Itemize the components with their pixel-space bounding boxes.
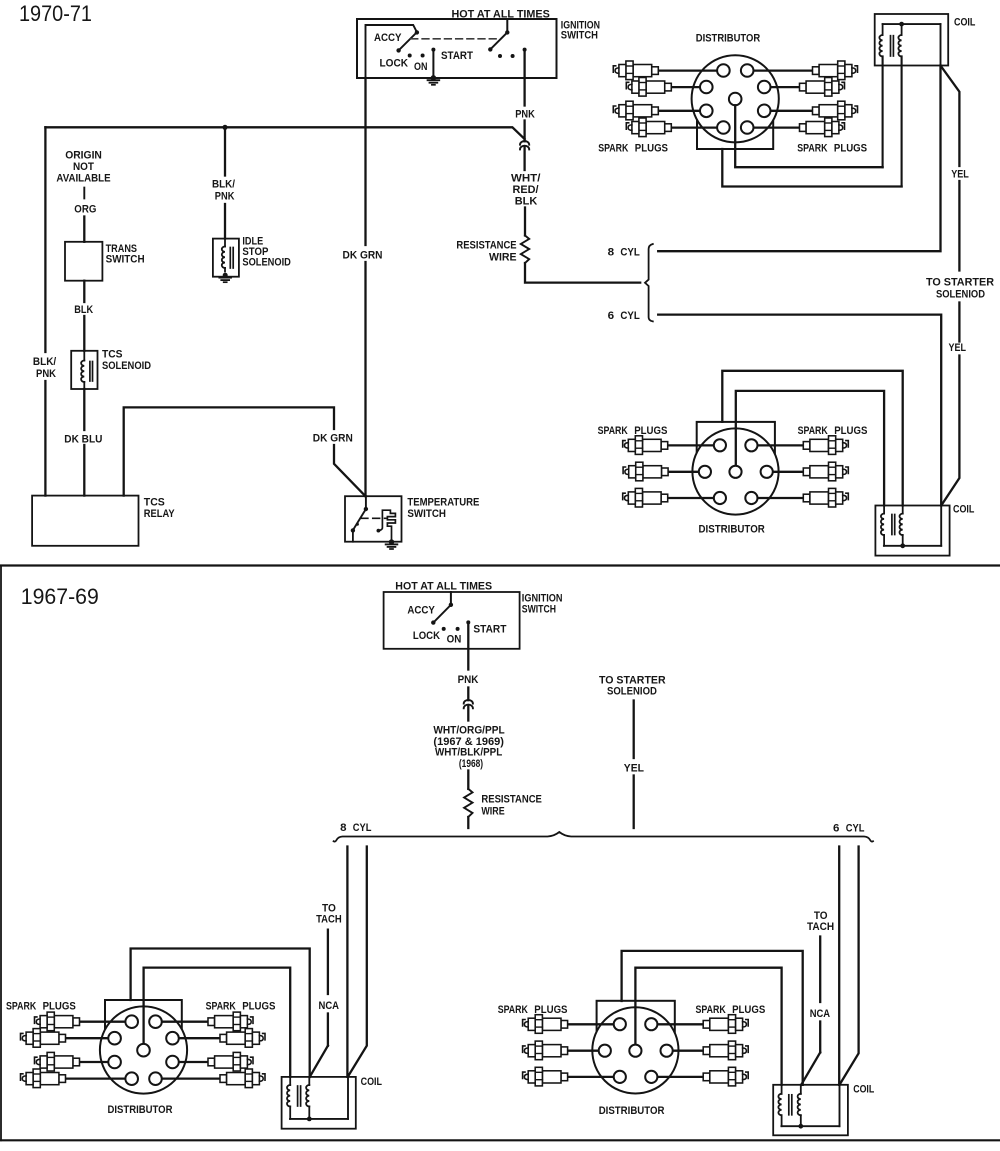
- wire distributor housing to coil (1967-69 6cyl): [622, 951, 803, 1085]
- coil terminal edge (1967-69 8cyl): [347, 1077, 349, 1119]
- wire PNK (1967-69): [467, 622, 469, 669]
- coil terminal edge (1967-69 6cyl): [839, 1085, 841, 1126]
- spark plug (1970-71 6cyl left row2): [623, 462, 668, 481]
- spark plug (1970-71 8cyl left row4): [626, 118, 671, 137]
- spark plug wires right (1967-69 8cyl): [162, 1021, 208, 1023]
- wire DK GRN from ignition switch to temperature switch: [364, 78, 366, 245]
- wire TCS relay to temperature switch: [124, 407, 334, 495]
- svg-text:DK GRN: DK GRN: [343, 250, 383, 262]
- brace 8cyl/6cyl (1970-71): [645, 244, 653, 321]
- svg-text:BLK/: BLK/: [33, 356, 56, 368]
- svg-text:PLUGS: PLUGS: [635, 143, 668, 155]
- contacts (right pair): [498, 54, 502, 58]
- svg-text:PLUGS: PLUGS: [43, 1001, 76, 1013]
- spark plug (1970-71 8cyl right row2): [800, 78, 845, 97]
- spark plug (1970-71 8cyl left row2): [626, 78, 671, 97]
- svg-text:CYL: CYL: [846, 823, 865, 835]
- distributor towers (1967-69 6cyl): [614, 1018, 626, 1030]
- svg-text:PLUGS: PLUGS: [534, 1004, 567, 1016]
- ignition feed switch lever: [506, 19, 508, 32]
- svg-text:BLK/: BLK/: [212, 179, 235, 191]
- svg-text:SWITCH: SWITCH: [522, 604, 556, 616]
- wire 6 CYL to lower coil: [658, 315, 941, 506]
- svg-text:DISTRIBUTOR: DISTRIBUTOR: [599, 1105, 665, 1117]
- spark plug (1967-69 8cyl left row1): [35, 1012, 80, 1031]
- spark plug (1967-69 8cyl left row3): [35, 1052, 80, 1071]
- svg-text:PLUGS: PLUGS: [732, 1004, 765, 1016]
- spark plug (1970-71 8cyl left row1): [613, 61, 658, 80]
- ACCY switch lever: [399, 32, 417, 50]
- svg-text:PLUGS: PLUGS: [634, 425, 667, 437]
- spark plug wires right (1970-71 8cyl): [754, 69, 813, 71]
- spark plug wires left (1970-71 8cyl): [658, 69, 717, 71]
- coil terminal edge (1970-71 6cyl): [940, 506, 942, 546]
- svg-text:PLUGS: PLUGS: [834, 425, 867, 437]
- coil windings (1970-71 6cyl): [883, 506, 885, 514]
- svg-text:COIL: COIL: [954, 17, 976, 29]
- dashed coupling line: [411, 38, 497, 40]
- svg-text:YEL: YEL: [951, 169, 969, 181]
- svg-text:6: 6: [608, 310, 615, 322]
- spark plug (1967-69 8cyl left row4): [21, 1069, 66, 1088]
- svg-text:COIL: COIL: [853, 1084, 874, 1096]
- spark plug (1967-69 8cyl right row1): [208, 1012, 253, 1031]
- svg-text:HOT AT ALL TIMES: HOT AT ALL TIMES: [452, 8, 550, 20]
- svg-text:AVAILABLE: AVAILABLE: [56, 173, 110, 185]
- wire resistor to brace (1967-69): [467, 817, 469, 828]
- svg-text:ORG: ORG: [74, 204, 96, 216]
- distributor body (1970-71 8cyl): [692, 55, 779, 149]
- svg-text:SPARK: SPARK: [797, 143, 827, 155]
- svg-text:TACH: TACH: [316, 914, 342, 926]
- wire 6 CYL drop 1 (1967-69): [838, 847, 840, 1085]
- distributor body (1967-69 8cyl): [100, 1000, 187, 1094]
- svg-text:TACH: TACH: [807, 921, 834, 933]
- inline connector on PNK wire: [520, 141, 529, 145]
- spark plug (1967-69 6cyl right row1): [703, 1015, 748, 1034]
- wire BLK/PNK to idle stop solenoid: [224, 127, 226, 175]
- svg-text:DISTRIBUTOR: DISTRIBUTOR: [696, 33, 761, 45]
- hot bus wire from ignition to TCS relay: [45, 127, 524, 139]
- temperature switch heater element: [377, 529, 381, 533]
- TCS solenoid box: [71, 351, 97, 389]
- svg-text:SPARK: SPARK: [598, 425, 628, 437]
- svg-text:SPARK: SPARK: [696, 1004, 726, 1016]
- svg-text:SOLENOID: SOLENOID: [102, 360, 151, 372]
- svg-text:COIL: COIL: [361, 1076, 383, 1088]
- wire YEL to starter solenoid (upper): [941, 66, 960, 167]
- spark plug (1967-69 8cyl right row4): [220, 1069, 265, 1088]
- svg-text:SWITCH: SWITCH: [407, 508, 446, 520]
- svg-text:WHT/ORG/PPL: WHT/ORG/PPL: [433, 725, 505, 737]
- idle stop solenoid box: [213, 239, 239, 277]
- temperature switch box: [345, 496, 402, 542]
- left border (1967-69): [0, 566, 2, 1141]
- contact LOCK (1967-69): [442, 627, 446, 631]
- distributor body (1970-71 6cyl): [692, 422, 778, 515]
- spark plug (1970-71 6cyl right row1): [803, 436, 848, 455]
- svg-text:LOCK: LOCK: [380, 58, 409, 70]
- svg-text:ON: ON: [447, 634, 462, 646]
- svg-text:DISTRIBUTOR: DISTRIBUTOR: [699, 524, 765, 536]
- distributor towers (1967-69 8cyl): [125, 1015, 138, 1028]
- svg-text:SOLENOID: SOLENOID: [242, 256, 291, 268]
- svg-text:ORIGIN: ORIGIN: [65, 150, 102, 162]
- distributor towers (1970-71 8cyl): [717, 64, 730, 77]
- contact ON (1967-69): [456, 627, 460, 631]
- coil windings (1970-71 8cyl): [883, 23, 941, 25]
- svg-text:CYL: CYL: [353, 822, 372, 834]
- wire distributor center to coil (1970-71 8cyl): [735, 105, 882, 167]
- coil windings (1967-69 8cyl): [289, 1077, 291, 1085]
- spark plug (1970-71 6cyl right row3): [803, 488, 848, 507]
- svg-text:CYL: CYL: [620, 247, 640, 259]
- TCS solenoid winding: [83, 351, 85, 361]
- wire from resistance wire to cylinder brace: [525, 263, 640, 283]
- svg-text:TO: TO: [322, 902, 336, 914]
- distributor towers (1970-71 6cyl): [714, 439, 726, 451]
- svg-text:ACCY: ACCY: [407, 605, 435, 617]
- spark plug (1967-69 6cyl right row3): [703, 1067, 748, 1086]
- svg-text:YEL: YEL: [624, 763, 644, 775]
- svg-text:1967-69: 1967-69: [21, 584, 99, 609]
- svg-text:BLK: BLK: [515, 196, 538, 208]
- contact START (1967-69): [466, 620, 470, 624]
- wire distributor housing to coil (1970-71 8cyl): [722, 149, 901, 187]
- svg-text:NOT: NOT: [73, 161, 94, 173]
- svg-text:RELAY: RELAY: [144, 508, 175, 520]
- svg-text:HOT AT ALL TIMES: HOT AT ALL TIMES: [395, 580, 492, 592]
- ignition switch box (1970-71): [357, 19, 557, 78]
- svg-text:NCA: NCA: [810, 1008, 831, 1020]
- trans switch box: [65, 242, 102, 281]
- spark plug (1967-69 6cyl right row2): [703, 1041, 748, 1060]
- svg-text:SPARK: SPARK: [798, 425, 828, 437]
- resistance wire resistor (1967-69): [464, 789, 472, 817]
- coil box (1967-69 8cyl): [282, 1077, 356, 1129]
- wire DK BLU: [83, 389, 85, 430]
- wire 8 CYL drop 1 (1967-69): [346, 847, 348, 1077]
- svg-text:START: START: [441, 50, 473, 62]
- wire BLK: [83, 281, 85, 302]
- wire 6 CYL drop 2 (1967-69): [840, 847, 859, 1085]
- svg-text:BLK: BLK: [74, 304, 93, 316]
- svg-text:8: 8: [608, 247, 615, 259]
- coil terminal edge (1970-71 8cyl): [940, 24, 942, 65]
- coil box (1967-69 6cyl): [773, 1085, 848, 1136]
- wire 8 CYL to coil: [658, 66, 940, 252]
- svg-text:TCS: TCS: [144, 497, 165, 509]
- svg-text:SPARK: SPARK: [598, 143, 628, 155]
- wire WHT/ORG/PPL: [467, 706, 469, 721]
- ignition feed lever (1967-69): [450, 592, 452, 605]
- ground at ignition switch: [431, 75, 436, 80]
- wire NCA to coil (left): [327, 930, 329, 994]
- svg-text:(1968): (1968): [459, 758, 484, 770]
- spark plug (1967-69 8cyl right row3): [208, 1052, 253, 1071]
- wire distributor housing to coil (1970-71 6cyl): [722, 371, 902, 506]
- temperature switch contacts: [365, 496, 367, 509]
- spark plug (1967-69 8cyl left row2): [21, 1029, 66, 1048]
- wire distributor housing to coil (1967-69 8cyl): [131, 949, 310, 1077]
- svg-text:1970-71: 1970-71: [19, 1, 92, 26]
- svg-text:PLUGS: PLUGS: [834, 143, 867, 155]
- coil windings (1967-69 6cyl): [781, 1085, 783, 1094]
- wire ORG: [83, 188, 85, 199]
- spark plug (1967-69 6cyl left row2): [523, 1041, 568, 1060]
- wire NCA to coil (right): [819, 937, 821, 1003]
- wire distributor center to coil (1970-71 6cyl): [736, 391, 884, 506]
- ignition switch inner frame: [366, 25, 417, 78]
- svg-text:ON: ON: [414, 61, 428, 73]
- wire 8 CYL drop 2 (1967-69): [348, 847, 367, 1077]
- resistance wire resistor (1970-71): [521, 236, 529, 264]
- spark plug (1970-71 6cyl right row2): [803, 462, 848, 481]
- ignition switch box (1967-69): [384, 592, 520, 649]
- svg-text:WHT/: WHT/: [511, 173, 540, 185]
- svg-text:NCA: NCA: [319, 1000, 340, 1012]
- ground at idle stop solenoid: [223, 273, 228, 278]
- svg-text:SWITCH: SWITCH: [561, 30, 598, 42]
- svg-text:6: 6: [833, 823, 839, 835]
- svg-text:WIRE: WIRE: [481, 806, 504, 818]
- svg-text:RED/: RED/: [513, 184, 539, 196]
- spark plug (1970-71 8cyl right row4): [800, 118, 845, 137]
- svg-text:SPARK: SPARK: [6, 1001, 36, 1013]
- spark plug (1967-69 6cyl left row1): [523, 1015, 568, 1034]
- contact START with grounded wire: [431, 48, 435, 52]
- bottom border (1967-69): [0, 1139, 1000, 1141]
- svg-text:LOCK: LOCK: [413, 630, 440, 642]
- contact LOCK: [408, 54, 412, 58]
- ignition output contact: [523, 48, 527, 52]
- svg-text:SOLENIOD: SOLENIOD: [607, 686, 657, 698]
- cylinder brace (1967-69): [334, 832, 873, 842]
- svg-text:CYL: CYL: [620, 310, 640, 322]
- svg-text:COIL: COIL: [953, 504, 975, 516]
- svg-text:TO STARTER: TO STARTER: [926, 277, 994, 289]
- contact ON: [421, 54, 425, 58]
- spark plug (1970-71 8cyl right row3): [813, 101, 858, 120]
- svg-text:SWITCH: SWITCH: [106, 254, 145, 266]
- junction node on bus: [222, 125, 227, 130]
- spark plug (1970-71 8cyl left row3): [613, 101, 658, 120]
- svg-text:SPARK: SPARK: [498, 1004, 528, 1016]
- spark plug wires left (1967-69 6cyl): [568, 1023, 614, 1025]
- svg-text:PNK: PNK: [36, 368, 56, 380]
- wire YEL to brace (1967-69): [633, 701, 635, 759]
- wire distributor center to coil (1967-69 6cyl): [635, 968, 781, 1085]
- svg-text:WHT/BLK/PPL: WHT/BLK/PPL: [435, 747, 503, 759]
- wire WHT/RED/BLK: [523, 147, 525, 170]
- spark plug (1970-71 8cyl right row1): [813, 61, 858, 80]
- svg-text:RESISTANCE: RESISTANCE: [481, 794, 542, 806]
- section divider: [0, 564, 1000, 566]
- svg-text:DISTRIBUTOR: DISTRIBUTOR: [108, 1104, 173, 1116]
- coil box (1970-71 6cyl): [875, 506, 949, 556]
- svg-text:SPARK: SPARK: [206, 1001, 236, 1013]
- svg-text:YEL: YEL: [949, 342, 967, 354]
- spark plug (1967-69 6cyl left row3): [523, 1067, 568, 1086]
- svg-text:8: 8: [340, 822, 346, 834]
- ground at temperature switch: [389, 539, 394, 544]
- coil box (1970-71 8cyl): [875, 14, 949, 66]
- spark plug (1970-71 6cyl left row1): [623, 436, 668, 455]
- inline connector (1967-69): [464, 700, 473, 704]
- svg-text:PNK: PNK: [515, 109, 535, 121]
- svg-text:PLUGS: PLUGS: [242, 1001, 275, 1013]
- wire PNK from ignition switch: [523, 50, 525, 106]
- svg-text:ACCY: ACCY: [374, 32, 402, 44]
- svg-text:DK BLU: DK BLU: [64, 434, 102, 446]
- svg-text:DK GRN: DK GRN: [313, 433, 353, 445]
- svg-text:RESISTANCE: RESISTANCE: [456, 240, 516, 252]
- svg-text:SOLENIOD: SOLENIOD: [936, 289, 985, 301]
- svg-text:TEMPERATURE: TEMPERATURE: [407, 497, 479, 509]
- spark plug wires left (1970-71 6cyl): [668, 444, 714, 446]
- spark plug wires right (1967-69 6cyl): [657, 1023, 703, 1025]
- distributor body (1967-69 6cyl): [592, 1001, 678, 1094]
- svg-text:TCS: TCS: [102, 349, 123, 361]
- idle stop solenoid winding: [224, 239, 226, 247]
- spark plug (1967-69 8cyl right row2): [220, 1029, 265, 1048]
- wire distributor center to coil (1967-69 8cyl): [144, 968, 291, 1077]
- spark plug (1970-71 6cyl left row3): [623, 488, 668, 507]
- svg-text:WIRE: WIRE: [489, 252, 517, 264]
- svg-text:PNK: PNK: [215, 191, 235, 203]
- spark plug wires left (1967-69 8cyl): [80, 1021, 126, 1023]
- svg-text:PNK: PNK: [458, 674, 479, 686]
- svg-text:START: START: [473, 624, 506, 636]
- TCS relay box: [32, 496, 138, 546]
- spark plug wires right (1970-71 6cyl): [757, 444, 803, 446]
